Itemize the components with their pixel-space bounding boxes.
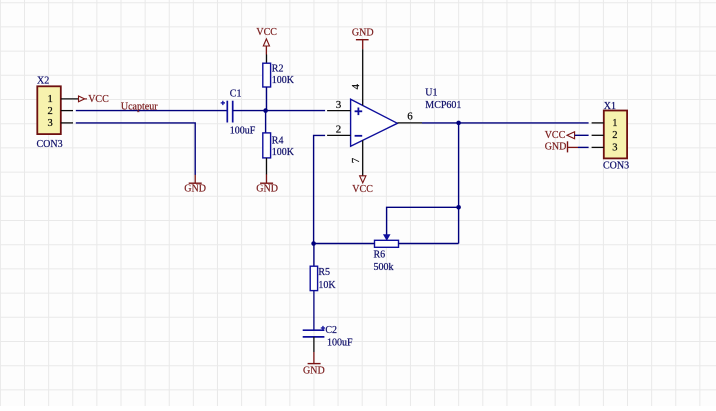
resistor R2 bbox=[263, 55, 271, 111]
power port GND (below C2) bbox=[303, 352, 325, 377]
R5 value 10K bbox=[318, 280, 336, 291]
X2 value CON3 bbox=[37, 139, 63, 150]
R5 designator bbox=[318, 267, 330, 278]
svg-text:6: 6 bbox=[407, 111, 413, 123]
svg-text:Ucapteur: Ucapteur bbox=[121, 101, 158, 112]
wire op-amp output to junction bbox=[422, 122, 459, 124]
svg-text:VCC: VCC bbox=[352, 184, 373, 195]
svg-text:MCP601: MCP601 bbox=[425, 100, 461, 111]
wire R6 right terminal to output branch bbox=[399, 243, 459, 245]
svg-text:1: 1 bbox=[612, 118, 617, 129]
C2 value 100uF bbox=[327, 337, 353, 348]
wire op-amp pin 2 to feedback node bbox=[314, 135, 326, 243]
U1 pin 3 (non-inverting input) bbox=[327, 99, 351, 111]
op-amp U1 bbox=[351, 99, 398, 146]
svg-text:GND: GND bbox=[256, 184, 278, 195]
junction R2/R4 node bbox=[263, 108, 268, 113]
power port VCC (X1 pin 2) bbox=[545, 130, 589, 141]
svg-text:3: 3 bbox=[612, 142, 617, 153]
power port VCC (X2 pin 1) bbox=[79, 94, 110, 105]
connector X1 body bbox=[604, 111, 627, 159]
R6 designator bbox=[374, 249, 386, 260]
power port GND (X1 pin 3) bbox=[545, 141, 589, 152]
svg-text:GND: GND bbox=[184, 184, 206, 195]
X1 pin 3 bbox=[592, 142, 618, 153]
capacitor C1 bbox=[221, 101, 233, 123]
resistor R5 bbox=[310, 244, 317, 291]
junction wiper node bbox=[456, 205, 461, 210]
wire output junction to X1 pin 1 bbox=[459, 122, 589, 124]
X1 pin 1 bbox=[592, 118, 618, 129]
svg-text:X1: X1 bbox=[604, 101, 616, 112]
C1 value 100uF bbox=[230, 126, 256, 137]
connector X2 body bbox=[37, 86, 61, 134]
svg-text:100uF: 100uF bbox=[327, 337, 353, 348]
R2 value 100K bbox=[272, 75, 295, 86]
wire R5 to C2 bbox=[313, 291, 315, 331]
junction feedback node bbox=[311, 241, 316, 246]
svg-text:R4: R4 bbox=[272, 136, 284, 147]
svg-text:2: 2 bbox=[612, 130, 617, 141]
svg-text:X2: X2 bbox=[37, 76, 49, 87]
svg-text:GND: GND bbox=[352, 28, 374, 39]
power port GND (below R4) bbox=[256, 174, 278, 194]
resistor R4 bbox=[263, 133, 271, 175]
C1 designator bbox=[230, 89, 242, 100]
svg-text:2: 2 bbox=[336, 123, 342, 135]
wire output junction down to R6 bbox=[458, 123, 460, 244]
power port GND (below X2) bbox=[184, 175, 206, 195]
svg-text:4: 4 bbox=[350, 84, 362, 90]
U1 value MCP601 bbox=[425, 100, 461, 111]
power port VCC (above R2) bbox=[256, 27, 277, 54]
svg-text:100K: 100K bbox=[272, 147, 295, 158]
capacitor C2 bbox=[303, 326, 325, 337]
X1 pin 2 bbox=[592, 130, 618, 141]
svg-text:10K: 10K bbox=[318, 280, 336, 291]
svg-text:C2: C2 bbox=[325, 325, 337, 336]
wire wiper branch bbox=[387, 207, 459, 231]
wire X2 pin 3 to ground bbox=[76, 123, 195, 175]
C2 designator bbox=[325, 325, 337, 336]
svg-text:100K: 100K bbox=[272, 75, 295, 86]
svg-text:C1: C1 bbox=[230, 89, 242, 100]
U1 designator bbox=[425, 88, 437, 99]
svg-text:R6: R6 bbox=[374, 249, 386, 260]
svg-text:VCC: VCC bbox=[88, 94, 109, 105]
svg-text:U1: U1 bbox=[425, 88, 437, 99]
net label Ucapteur bbox=[121, 101, 158, 112]
svg-text:GND: GND bbox=[545, 142, 567, 153]
X2 pin 3 bbox=[48, 118, 73, 129]
power port VCC (below op-amp) bbox=[352, 176, 373, 195]
junction output node bbox=[456, 121, 461, 126]
X1 value CON3 bbox=[603, 160, 629, 171]
U1 pin 4 (top supply pin) bbox=[350, 49, 363, 105]
svg-text:1: 1 bbox=[48, 94, 53, 105]
svg-text:R5: R5 bbox=[318, 267, 330, 278]
wire C1 to op-amp pin 3 bbox=[233, 110, 325, 112]
X2 pin 1 bbox=[48, 94, 79, 105]
svg-text:3: 3 bbox=[336, 99, 342, 111]
wire C2 to ground bbox=[313, 337, 315, 352]
svg-text:VCC: VCC bbox=[545, 130, 566, 141]
R4 designator bbox=[272, 136, 284, 147]
R4 value 100K bbox=[272, 147, 295, 158]
U1 pin 2 (inverting input) bbox=[327, 123, 351, 135]
R6 value 500k bbox=[374, 262, 394, 273]
svg-text:CON3: CON3 bbox=[603, 160, 629, 171]
svg-text:GND: GND bbox=[303, 366, 325, 377]
svg-text:7: 7 bbox=[350, 157, 362, 163]
X2 designator bbox=[37, 76, 49, 87]
svg-text:100uF: 100uF bbox=[230, 126, 256, 137]
U1 pin 6 (output) bbox=[397, 111, 422, 123]
power port GND (above op-amp) bbox=[352, 28, 374, 50]
svg-text:CON3: CON3 bbox=[37, 139, 63, 150]
wire feedback node to R6 left terminal bbox=[314, 243, 375, 245]
svg-text:VCC: VCC bbox=[256, 27, 277, 38]
X2 pin 2 bbox=[48, 106, 73, 117]
potentiometer R6 bbox=[375, 232, 399, 248]
wire junction to R4 bbox=[265, 111, 267, 133]
X1 designator bbox=[604, 101, 616, 112]
svg-text:R2: R2 bbox=[272, 64, 284, 75]
svg-text:2: 2 bbox=[48, 106, 53, 117]
U1 pin 7 (bottom supply pin) bbox=[350, 140, 363, 176]
wire X2 pin 2 to C1 (net Ucapteur) bbox=[76, 110, 227, 112]
R2 designator bbox=[272, 64, 284, 75]
svg-text:500k: 500k bbox=[374, 262, 394, 273]
svg-text:3: 3 bbox=[48, 118, 53, 129]
